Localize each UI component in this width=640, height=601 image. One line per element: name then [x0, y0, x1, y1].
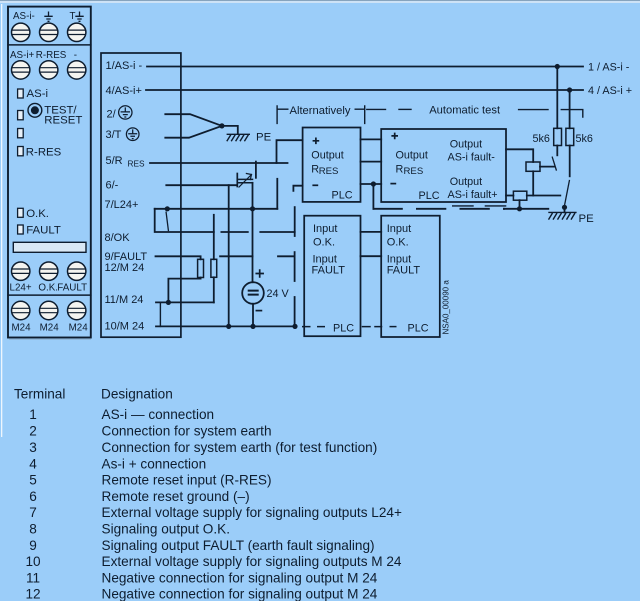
switch blade 7/L24+ [166, 212, 168, 230]
wire riser from 7/L24+ (dangling) [276, 179, 278, 209]
svg-text:Terminal: Terminal [14, 387, 65, 402]
wire 8/OK row segment B [221, 231, 247, 233]
wire 5/R to capacitor [255, 162, 257, 178]
earth symbol top row [44, 12, 52, 22]
wire 11/M24 [156, 301, 214, 303]
svg-text:12: 12 [25, 587, 40, 601]
wire link R row [361, 161, 382, 163]
relay coil K2 [513, 191, 526, 200]
svg-text:AS-i-: AS-i- [13, 11, 35, 22]
wire segment 6/- to 24V branch [220, 255, 252, 257]
svg-text:1 / AS-i -: 1 / AS-i - [588, 62, 630, 74]
svg-text:1: 1 [29, 407, 37, 422]
svg-text:6: 6 [29, 489, 37, 504]
node 24V- on bus [250, 324, 255, 329]
relay and test network [506, 67, 574, 213]
svg-text:Connection for system earth: Connection for system earth [102, 424, 272, 439]
left window edge artifact [1, 4, 2, 437]
wire AS-i fault+ to coil2 [506, 195, 513, 197]
screw terminal AS-i+ (4) [12, 61, 30, 79]
wire 8/OK row segment C [260, 231, 294, 233]
links box3 to box4 [361, 232, 382, 327]
wire coil1 bottom [532, 171, 534, 195]
wire link minus row [361, 183, 382, 185]
svg-text:O.K.: O.K. [387, 237, 409, 249]
wire 5/R RES [150, 162, 288, 164]
svg-text:NSA0_00090 a: NSA0_00090 a [442, 280, 451, 335]
svg-text:2/: 2/ [107, 108, 117, 120]
capacitor C1 bars [239, 179, 253, 182]
device panel outline [8, 7, 91, 338]
resistor R1 [198, 259, 204, 277]
node PE junction [219, 123, 224, 128]
svg-text:8/OK: 8/OK [105, 232, 131, 244]
svg-text:As-i + connection: As-i + connection [102, 456, 207, 471]
svg-text:Input: Input [313, 223, 337, 235]
stub2 lower to bottom bus [294, 297, 296, 326]
screw terminal FAULT (9) [68, 262, 86, 280]
svg-text:L24+: L24+ [10, 283, 32, 294]
svg-text:5k6: 5k6 [533, 133, 550, 145]
dashes under box2 [452, 205, 506, 207]
svg-text:Automatic test: Automatic test [429, 105, 501, 117]
svg-text:2: 2 [29, 424, 37, 439]
svg-text:6/-: 6/- [106, 179, 119, 191]
svg-text:External voltage supply for si: External voltage supply for signaling ou… [102, 554, 402, 569]
svg-text:Connection for system earth (f: Connection for system earth (for test fu… [102, 440, 378, 455]
panel divider 1 [8, 44, 91, 46]
terminal designation table [14, 387, 402, 601]
label window [13, 242, 86, 252]
dashes bus between box3 and box4 [363, 326, 382, 328]
ground PE1 [227, 134, 250, 141]
links box1 to box2 [361, 139, 549, 208]
svg-text:5k6: 5k6 [576, 133, 593, 145]
dashed wire to relay common [373, 208, 504, 210]
wire 7/L24+ [155, 208, 278, 210]
svg-text:5: 5 [29, 473, 37, 488]
svg-text:3/T: 3/T [106, 129, 122, 141]
voltage source 24V [242, 282, 264, 304]
wire coil2 right to contact2 [527, 195, 561, 197]
svg-text:PLC: PLC [333, 322, 354, 334]
wire terminal 3/T to PE node [165, 126, 222, 138]
LED O.K. [18, 208, 24, 217]
svg-text:O.K.: O.K. [38, 283, 58, 294]
svg-text:R-RES: R-RES [36, 50, 67, 61]
wire 24V supply branch [252, 209, 254, 282]
Alternatively zone [277, 105, 583, 124]
svg-text:PLC: PLC [419, 190, 440, 202]
svg-text:External voltage supply for si: External voltage supply for signaling ou… [102, 505, 402, 520]
svg-text:1/AS-i -: 1/AS-i - [106, 60, 143, 72]
wire link input FAULT row [361, 255, 382, 257]
svg-text:PE: PE [579, 213, 595, 225]
wire 6/- vertical drop [228, 185, 230, 326]
TEST/RESET button [28, 103, 42, 117]
svg-text:Output: Output [396, 149, 428, 161]
wire AS-i fault- to coil1 [506, 149, 533, 162]
svg-text:AS-i: AS-i [27, 88, 49, 100]
screw terminal R-RES (5) [40, 61, 58, 79]
wire segment D to input stub [278, 255, 295, 257]
PLC input box4 [381, 216, 440, 337]
LED 3 [18, 129, 24, 138]
svg-text:7: 7 [29, 505, 37, 520]
screw terminal M24 (10) [12, 301, 30, 319]
capacitor C1 arrow [239, 174, 252, 188]
screw terminal T-earth (3) [68, 23, 86, 41]
wire 1/AS-i- [147, 66, 583, 68]
LED R-RES [18, 147, 24, 156]
bracket left [277, 105, 288, 124]
PLC input box3 [304, 216, 360, 337]
svg-text:Output: Output [450, 139, 482, 151]
svg-text:4/AS-i+: 4/AS-i+ [106, 85, 142, 97]
wire R1 bottom to 11/M24 [168, 278, 200, 303]
node 4/AS-i+ tap [567, 87, 572, 92]
svg-text:FAULT: FAULT [57, 283, 87, 294]
plus sign 24V [256, 270, 263, 277]
LED AS-i [18, 89, 24, 98]
svg-text:FAULT: FAULT [26, 225, 61, 237]
svg-text:R: R [396, 164, 404, 176]
wire 1/AS-i- to 5k6 left [556, 67, 558, 129]
screw terminal AS-i- (1) [12, 23, 30, 41]
screw terminal L24+ (7) [12, 262, 30, 280]
earth symbol T row [75, 12, 83, 22]
ground PE2 [548, 212, 576, 219]
dash 1 [366, 108, 386, 110]
svg-text:Output: Output [311, 149, 343, 161]
wire riser to op box1 plus [277, 140, 303, 163]
svg-text:5/R: 5/R [106, 155, 123, 167]
node stub2 on bus [292, 324, 297, 329]
svg-text:PE: PE [256, 132, 272, 144]
svg-text:AS-i+: AS-i+ [10, 50, 35, 61]
panel divider 2 [8, 294, 91, 296]
svg-text:M24: M24 [12, 323, 32, 334]
svg-text:AS-i fault+: AS-i fault+ [448, 189, 498, 201]
node 6/- on bus [226, 324, 231, 329]
svg-text:RES: RES [404, 166, 424, 177]
node 7/L24+ switch [165, 206, 170, 211]
LED 2 [18, 111, 24, 120]
screw slots [12, 30, 85, 313]
svg-text:Input: Input [387, 223, 411, 235]
stub2 upper [294, 252, 296, 281]
PLC output box2 (automatic test) [381, 129, 506, 202]
node minus link PLC [371, 181, 376, 186]
top window edge artifact [0, 0, 640, 1]
svg-text:AS-i — connection: AS-i — connection [102, 407, 215, 422]
dashes in box3 bottom [302, 326, 325, 328]
wire 11/M24 to 10/M24 link [159, 302, 161, 326]
dash 3 [518, 109, 549, 111]
svg-text:8: 8 [29, 522, 37, 537]
wire R2 bottom lead [213, 277, 215, 302]
svg-text:M24: M24 [69, 323, 89, 334]
screw terminal minus (6) [68, 61, 86, 79]
svg-text:9/FAULT: 9/FAULT [105, 251, 148, 263]
automatic test corner bracket [561, 110, 583, 118]
wire 5k6 left bottom lead [556, 146, 558, 156]
svg-text:M24: M24 [40, 323, 60, 334]
svg-text:RESET: RESET [44, 114, 82, 126]
panel bottom shadow [9, 338, 91, 340]
resistor 5k6 left [554, 128, 562, 145]
LED FAULT [18, 225, 24, 234]
wire 10/M24 bottom bus [156, 325, 295, 327]
wire capacitor to 7/L24+ node [252, 183, 254, 209]
wire 6/- [166, 184, 237, 186]
stub above segment C junction [294, 207, 296, 236]
svg-text:3: 3 [29, 440, 37, 455]
svg-text:11/M 24: 11/M 24 [105, 294, 144, 306]
PLC output box1 [303, 128, 361, 202]
wire 9/FAULT to R1 [156, 256, 201, 259]
wire 24V minus to bus [252, 304, 254, 327]
svg-text:7/L24+: 7/L24+ [105, 199, 139, 211]
svg-text:Remote reset ground (–): Remote reset ground (–) [102, 489, 250, 504]
capacitor C1 plate [236, 174, 238, 187]
minus sign 24V [256, 310, 261, 312]
svg-text:T: T [70, 11, 76, 22]
svg-text:Output: Output [450, 176, 482, 188]
dash 2 [398, 108, 411, 110]
stub from op box1 minus [293, 186, 302, 191]
wire 4/AS-i+ [146, 89, 583, 91]
svg-text:Remote reset input (R-RES): Remote reset input (R-RES) [102, 473, 272, 488]
svg-text:O.K.: O.K. [26, 208, 49, 220]
wire link input OK row [361, 231, 382, 233]
contact 2 blade [564, 181, 569, 207]
svg-text:PLC: PLC [408, 322, 429, 334]
screw terminals: 4 rows [12, 23, 86, 320]
svg-text:FAULT: FAULT [387, 265, 421, 277]
svg-text:RES: RES [319, 166, 339, 177]
contact 1 blade [552, 157, 556, 170]
wire link plus row [361, 138, 382, 140]
wire coil2 bottom [519, 200, 521, 209]
svg-text:11: 11 [26, 570, 40, 585]
screw terminal M24 (11) [40, 301, 58, 319]
schematic terminal box [101, 53, 181, 337]
wire 4/AS-i+ to 5k6 right [569, 90, 571, 128]
wire R2 top lead [213, 215, 215, 259]
svg-text:PLC: PLC [332, 189, 353, 201]
wire relay bottom bus [504, 208, 548, 210]
svg-text:RES: RES [128, 158, 146, 168]
svg-text:R-RES: R-RES [26, 146, 62, 158]
svg-text:O.K.: O.K. [313, 237, 335, 249]
svg-text:Signaling output FAULT (earth: Signaling output FAULT (earth fault sign… [102, 538, 375, 553]
wire 8/OK row [155, 209, 214, 232]
svg-text:10: 10 [25, 554, 41, 569]
svg-text:FAULT: FAULT [312, 265, 346, 277]
svg-text:Negative connection for signal: Negative connection for signaling output… [102, 570, 378, 585]
svg-text:AS-i fault-: AS-i fault- [448, 152, 496, 164]
svg-text:9: 9 [29, 538, 37, 553]
svg-text:4 / AS-i +: 4 / AS-i + [588, 85, 632, 97]
resistor R2 [211, 259, 217, 277]
node 1/AS-i- tap [555, 64, 560, 69]
wire from minus link down [372, 184, 374, 209]
node capacitor tap [250, 206, 255, 211]
svg-text:Alternatively: Alternatively [290, 105, 351, 117]
screw terminal M24 (12) [68, 301, 86, 319]
wire 5k6 right bottom lead [569, 146, 571, 177]
svg-text:12/M 24: 12/M 24 [105, 262, 145, 274]
node R1 on 11/M24 [166, 300, 171, 305]
dash in box4 bottom [390, 326, 397, 328]
relay coil K1 [526, 162, 540, 171]
resistor 5k6 right [566, 128, 574, 145]
svg-text:Designation: Designation [101, 387, 173, 402]
screw terminal O.K. (8) [40, 262, 58, 280]
svg-text:Signaling output O.K.: Signaling output O.K. [102, 522, 230, 537]
wire PE node to ground [222, 126, 238, 134]
node coil2 bottom [517, 206, 522, 211]
wire coil1 to contact1 [540, 166, 554, 168]
bracket right [355, 105, 365, 124]
svg-text:10/M 24: 10/M 24 [105, 320, 145, 332]
svg-text:4: 4 [29, 456, 37, 471]
wire contact2 to PE [564, 207, 566, 212]
svg-text:-: - [74, 50, 77, 61]
screw terminal earth (2) [40, 23, 58, 41]
node contact2 to PE [562, 205, 567, 210]
svg-text:24 V: 24 V [267, 288, 290, 300]
wire terminal 2 to PE node [165, 114, 222, 126]
svg-text:Negative connection for signal: Negative connection for signaling output… [102, 587, 378, 601]
